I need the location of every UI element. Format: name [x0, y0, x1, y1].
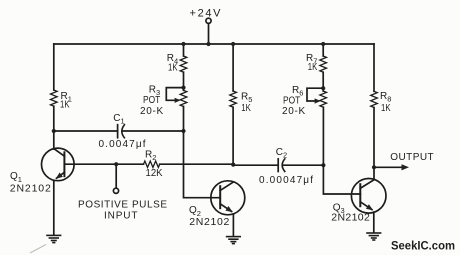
resistor R7 [320, 56, 327, 72]
terminal POSITIVE PULSE INPUT [113, 188, 118, 193]
wire rail to R7 [322, 44, 324, 56]
wire left branch from rail to R1 [53, 44, 55, 90]
svg-text:1K: 1K [241, 103, 251, 114]
svg-text:1K: 1K [60, 100, 70, 111]
potentiometer R6 wiper link [307, 88, 323, 103]
transistor Q2 [211, 181, 245, 215]
svg-text:INPUT: INPUT [104, 210, 138, 221]
+24V supply terminal [206, 18, 211, 44]
node R5 rail junction [231, 42, 235, 46]
node R4 / R3 junction [181, 86, 185, 90]
potentiometer R6 [320, 91, 327, 107]
node C2 / R6 junction [321, 163, 325, 167]
node output junction [372, 165, 376, 169]
wire R2 to Q2 collector node [160, 163, 234, 165]
svg-text:1K: 1K [308, 62, 318, 73]
wire pot R3 bottom down to Q2 base corner [184, 107, 221, 198]
node trigger input junction [114, 162, 118, 166]
capacitor C2 [278, 159, 285, 172]
svg-text:1K: 1K [381, 103, 391, 114]
wire rail to R5 [232, 44, 234, 91]
svg-text:2N2102: 2N2102 [10, 182, 51, 194]
wire R4 to pot R3 top [183, 72, 185, 90]
ground Q3 [367, 233, 381, 240]
svg-text:12K: 12K [146, 168, 163, 179]
ground Q1 [47, 235, 61, 242]
svg-text:POSITIVE PULSE: POSITIVE PULSE [78, 199, 167, 210]
wire R7 to pot R6 top [322, 72, 324, 91]
node Q1 collector / C1 junction [52, 129, 56, 133]
svg-text:2N2102: 2N2102 [331, 211, 370, 223]
wire input junction down to terminal [115, 164, 117, 188]
svg-text:2N2102: 2N2102 [189, 216, 229, 228]
resistor R1 [51, 90, 58, 106]
node Q2 collector junction [231, 163, 235, 167]
resistor R5 [230, 91, 237, 107]
resistor R4 [180, 56, 187, 72]
potentiometer R3 wiper link [166, 88, 183, 103]
svg-text:20-K: 20-K [282, 106, 306, 117]
scan scratch artifact [30, 245, 46, 254]
node R7 rail junction [321, 42, 325, 46]
wire node to Q1 collector [53, 131, 55, 149]
transistor Q1 [42, 148, 75, 181]
svg-text:0.00047μf: 0.00047μf [259, 175, 313, 186]
wire Q3 emitter to ground [373, 212, 375, 232]
wire Q1 base to R2 and Q2 collector node [64, 163, 143, 165]
svg-text:SeekIC.com: SeekIC.com [391, 241, 455, 253]
wire R8 to Q3 collector [373, 108, 375, 180]
svg-text:0.0047μf: 0.0047μf [99, 139, 146, 150]
node C1 / R3 junction [181, 129, 185, 133]
svg-text:20-K: 20-K [140, 106, 164, 117]
wire C1 to R3 bottom junction [122, 130, 183, 132]
transistor Q3 [351, 179, 386, 214]
node R7 / R6 junction [321, 86, 325, 90]
svg-text:POT: POT [143, 95, 160, 106]
wire top supply rail [54, 43, 374, 45]
svg-text:OUTPUT: OUTPUT [390, 152, 433, 163]
wire rail to R4 [183, 44, 185, 56]
wire Q1 collector node to C1 [54, 130, 118, 132]
wire output arrow [374, 164, 409, 170]
wire R1 to Q1 collector node [53, 106, 55, 131]
wire R5 to Q2 collector node [232, 107, 234, 164]
svg-text:POT: POT [283, 95, 300, 106]
resistor R8 [371, 91, 378, 107]
wire Q2 emitter to ground [232, 214, 234, 236]
wire pot R6 bottom down to Q3 base corner [323, 107, 360, 194]
ground Q2 [227, 237, 241, 244]
capacitor C1 [118, 125, 125, 138]
node +24V rail junction [206, 42, 210, 46]
resistor R2 [144, 161, 160, 167]
wire Q1 emitter to ground [53, 181, 55, 235]
wire C2 to R6 bottom junction [283, 164, 324, 166]
svg-text:+24V: +24V [190, 7, 222, 19]
wire Q2 collector node to C2 [233, 164, 278, 166]
node R4 rail junction [181, 42, 185, 46]
wire rail right end down to R8 [373, 44, 375, 91]
potentiometer R3 [180, 90, 187, 106]
svg-text:1K: 1K [168, 63, 178, 74]
